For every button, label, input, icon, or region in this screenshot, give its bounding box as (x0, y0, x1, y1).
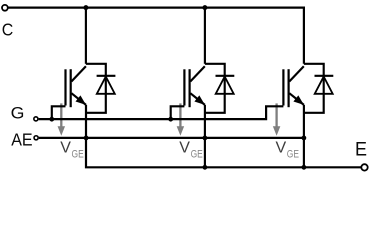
IGBT Q3 gate bar (282, 69, 284, 105)
svg-text:G: G (11, 104, 25, 123)
wire: emitter vertical Q3 (303, 105, 305, 167)
wire: gate tap Q1 (52, 106, 66, 119)
IGBT Q1 body bar (70, 69, 72, 107)
IGBT Q3 body bar (288, 69, 290, 107)
svg-text:AE: AE (11, 130, 33, 150)
wire: emitter vertical Q2 (204, 105, 206, 167)
svg-text:V: V (276, 140, 287, 157)
svg-text:V: V (60, 140, 71, 157)
wire: collector drop Q1 (85, 8, 87, 64)
node: E rail dot 3 (302, 165, 307, 170)
terminal AE circle (34, 136, 38, 140)
IGBT Q3 collector lead (289, 66, 304, 81)
Vge measurement arrow 1 (gray) (58, 103, 66, 135)
node: gate tap dot Q1 (49, 117, 54, 122)
IGBT Q2 collector lead (190, 66, 205, 81)
terminal G circle (34, 117, 38, 121)
svg-text:GE: GE (191, 149, 203, 161)
wire: emitter vertical Q1 down to E rail and E rail to terminal (86, 105, 361, 167)
svg-text:E: E (355, 139, 367, 161)
Vge measurement arrow 3 (gray) (273, 103, 281, 135)
svg-text:V: V (179, 140, 190, 157)
node: E rail dot 2 (203, 165, 208, 170)
terminal E circle (361, 164, 367, 170)
svg-text:GE: GE (287, 149, 299, 161)
IGBT Q2 body bar (189, 69, 191, 107)
diode D3 triangle (315, 77, 333, 94)
node: junction dot C-Q2 (202, 5, 207, 10)
IGBT Q1 gate bar (64, 69, 66, 105)
IGBT Q1 collector lead (71, 66, 86, 81)
terminal C circle (2, 5, 8, 11)
diode D3 cathode bar (315, 75, 334, 77)
node: junction dot C-Q1 (83, 5, 88, 10)
wire: collector drop Q2 (204, 8, 206, 64)
IGBT Q3 emitter arrowhead (293, 95, 304, 105)
IGBT Q2 gate bar (183, 69, 185, 105)
wire: diode branch frame 2 (205, 64, 225, 113)
svg-text:GE: GE (72, 149, 84, 161)
diode D1 triangle (97, 77, 115, 94)
IGBT Q2 emitter arrowhead (194, 95, 205, 105)
node: AE dot 2 (203, 136, 208, 141)
diode D2 cathode bar (216, 75, 235, 77)
auxiliary emitter bus AE (39, 137, 304, 139)
IGBT Q3 emitter lead (289, 93, 304, 105)
wire: gate tap Q2 (171, 106, 185, 119)
wire: diode branch frame 3 (304, 64, 324, 113)
svg-text:C: C (2, 20, 14, 40)
wire: diode branch frame 1 (86, 64, 106, 113)
diode D1 cathode bar (97, 75, 116, 77)
Vge measurement arrow 2 (gray) (177, 103, 185, 135)
IGBT Q1 emitter arrowhead (76, 95, 87, 105)
node: AE dot 1 (84, 136, 89, 141)
IGBT Q1 emitter lead (71, 93, 86, 105)
gate bus G with step up to Q3 gate (39, 106, 284, 119)
collector top rail with right-end drop to Q3 (8, 8, 304, 64)
node: AE dot 3 (302, 136, 307, 141)
diode D2 triangle (216, 77, 234, 94)
IGBT Q2 emitter lead (190, 93, 205, 105)
node: gate tap dot Q2 (168, 117, 173, 122)
